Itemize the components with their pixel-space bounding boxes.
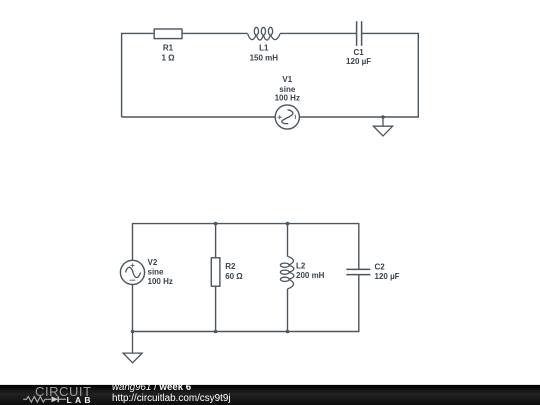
svg-text:R1: R1 (163, 44, 174, 53)
wire C1 to right vertical down to ground node (362, 33, 419, 117)
wire V1 left terminal to bottom-left corner (122, 116, 276, 118)
svg-text:60 Ω: 60 Ω (225, 272, 243, 281)
wire top-left L segment (left vertical + top-left horizontal) (122, 33, 155, 117)
svg-text:C2: C2 (375, 262, 386, 271)
inductor L1 (248, 27, 281, 40)
wire L2 top stub (287, 224, 289, 257)
node: R2 top junction (214, 222, 218, 226)
svg-text:100 Hz: 100 Hz (148, 277, 173, 286)
svg-text:sine: sine (279, 85, 296, 94)
svg-text:150 mH: 150 mH (250, 54, 279, 63)
svg-text:120 µF: 120 µF (375, 272, 400, 281)
wire R2 bottom stub (215, 286, 217, 331)
wire ground node to V1 right terminal (300, 116, 384, 118)
node: R2 bottom junction (214, 330, 218, 334)
svg-text:wang961 / week 6: wang961 / week 6 (112, 382, 192, 393)
ground (bottom circuit) (123, 332, 142, 363)
svg-text:200 mH: 200 mH (296, 271, 325, 280)
footer bar (0, 385, 540, 405)
voltage source V2 (120, 258, 172, 286)
bottom circuit (133, 224, 359, 332)
voltage source V1 (275, 75, 300, 129)
svg-text:R2: R2 (225, 262, 236, 271)
resistor R2 (211, 258, 243, 286)
svg-text:120 µF: 120 µF (346, 57, 371, 66)
wire R2 top stub (215, 224, 217, 258)
node: L2 top junction (286, 222, 290, 226)
inductor L2 (280, 256, 294, 289)
capacitor C2 (346, 262, 399, 281)
CircuitLab logo: diode symbol (52, 396, 59, 402)
capacitor C1 (346, 21, 371, 66)
node: L2 bottom junction (286, 330, 290, 334)
node: top circuit ground junction (381, 115, 385, 119)
wire bottom rail (133, 275, 359, 332)
wire top rail (133, 224, 359, 270)
svg-text:http://circuitlab.com/csy9t9j: http://circuitlab.com/csy9t9j (112, 393, 231, 404)
svg-text:L1: L1 (259, 44, 269, 53)
node: V2/ground bottom junction (131, 330, 135, 334)
svg-text:V1: V1 (282, 75, 292, 84)
svg-text:V2: V2 (148, 258, 158, 267)
svg-text:L2: L2 (296, 262, 306, 271)
resistor R1 (154, 29, 182, 63)
svg-text:LAB: LAB (67, 395, 94, 405)
ground (top circuit) (373, 117, 392, 136)
wire V2 bottom to bottom rail (132, 285, 134, 332)
svg-text:sine: sine (148, 268, 165, 277)
svg-text:1 Ω: 1 Ω (161, 54, 175, 63)
CircuitLab logo: resistor zigzag (23, 397, 51, 403)
wire L2 bottom stub (287, 289, 289, 332)
wire L1 to C1 (280, 32, 357, 34)
wire R1 to L1 (182, 32, 248, 34)
svg-text:100 Hz: 100 Hz (275, 94, 300, 103)
svg-text:C1: C1 (353, 48, 364, 57)
